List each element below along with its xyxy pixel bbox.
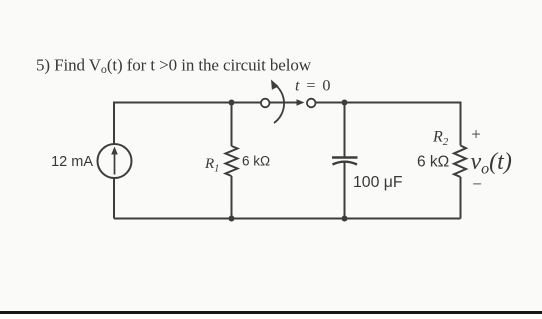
svg-text:R2: R2 [432, 129, 449, 149]
svg-text:+: + [471, 125, 481, 144]
svg-text:5) Find Vo(t) for t >0 in the: 5) Find Vo(t) for t >0 in the circuit be… [36, 56, 312, 77]
switch contact circle (left) [261, 99, 270, 108]
switch contact circle (right) [307, 99, 316, 108]
switch blade wire with arrow [270, 99, 305, 106]
svg-text:6 kΩ: 6 kΩ [417, 154, 449, 171]
svg-text:100 μF: 100 μF [353, 174, 403, 191]
wire: capacitor branch vertical [344, 102, 346, 219]
wire: top right segment [316, 102, 461, 104]
svg-text:vo(t): vo(t) [471, 149, 512, 178]
resistor R2 zigzag [454, 146, 466, 178]
wire: top left segment [114, 102, 261, 104]
current source arrow [111, 147, 118, 175]
capacitor C1 bottom curved plate [333, 162, 358, 165]
junction node: capacitor bottom [342, 216, 348, 222]
svg-text:−: − [472, 175, 482, 194]
svg-text:t = 0: t = 0 [295, 77, 332, 95]
resistor R1 zigzag [226, 146, 238, 176]
svg-text:6 kΩ: 6 kΩ [242, 154, 270, 169]
bottom page rule [0, 311, 542, 314]
svg-text:12 mA: 12 mA [51, 154, 93, 170]
wire: R1 branch vertical [231, 102, 233, 219]
capacitor C1 top plate [332, 156, 358, 159]
junction node: capacitor top [342, 100, 348, 106]
junction node: R1 top [229, 100, 235, 106]
current source I1 circle [98, 144, 132, 178]
switch arc arrowhead [271, 80, 279, 90]
wire: bottom [114, 218, 461, 220]
junction node: R1 bottom [229, 216, 235, 222]
svg-text:R1: R1 [204, 156, 219, 175]
switch opening arc [274, 86, 284, 124]
wire: right vertical (R2 branch) [460, 102, 462, 219]
wire: left vertical (current source branch) [113, 102, 115, 219]
